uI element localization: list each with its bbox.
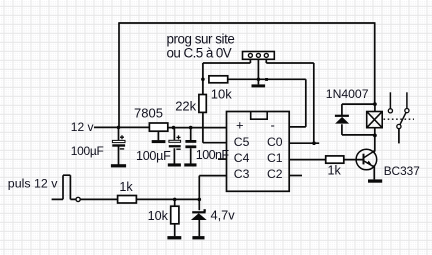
svg-text:C2: C2 [267,167,283,181]
wire header middle pin to ground [257,59,259,84]
wire 12v input [94,126,149,128]
resistor 10k horizontal [209,76,228,83]
junction pulse node zener C3 [198,198,202,202]
svg-text:1k: 1k [328,164,342,178]
svg-text:C0: C0 [267,135,283,149]
capacitor 100nF [185,140,196,148]
svg-text:10k: 10k [148,209,169,223]
svg-text:22k: 22k [175,99,196,114]
svg-text:100nF: 100nF [196,148,230,162]
wire emitter to ground [373,167,375,180]
ground emitter [368,179,382,182]
ground header [252,84,266,87]
ground cap1 [111,164,126,167]
zener diode 4,7v [191,209,207,220]
svg-text:7805: 7805 [134,106,163,121]
svg-text:BC337: BC337 [384,164,420,178]
wire C0 pin [289,142,319,144]
junction 5V 100nF [189,126,193,130]
wire 7805 gnd stub [157,131,159,140]
pulse symbol input [52,175,76,199]
junction square ground rail [265,78,268,81]
svg-text:1N4007: 1N4007 [326,87,369,101]
wire 10k vertical stubs [174,199,176,236]
svg-text:puls 12 v: puls 12 v [8,176,58,190]
junction pulse node 10k pulldown [173,198,177,202]
wire C3 pin to zener node [199,176,226,211]
svg-text:100µF: 100µF [136,149,171,163]
svg-text:10k: 10k [211,87,232,102]
svg-text:-: - [271,118,275,133]
resistor 1k base [326,156,344,163]
resistor 22k [199,95,206,113]
ground bar under 7805 [152,140,166,143]
svg-text:1k: 1k [119,180,133,194]
diode 1N4007 [335,115,349,124]
junction 5V cap2 [172,126,176,130]
resistor 1k pulse input [118,196,137,204]
svg-text:12 v: 12 v [71,120,94,134]
relay coil box [367,112,383,128]
wire zener bottom stub [198,220,200,236]
ground zener [192,236,204,239]
wire top loop [119,22,375,127]
switch SPDT contacts [388,92,409,128]
wire relay to collector [374,104,376,151]
wire pulse to 1k to node [81,198,200,200]
junction ground rail header pin 2 [257,78,261,82]
IC microcontroller box [227,112,290,192]
ground cap2 [168,163,181,166]
wire cap2 stubs [173,128,175,164]
junction prog node 10k 22k [201,78,205,82]
wire header right pin to C0 [266,59,314,143]
svg-text:100µF: 100µF [71,144,104,158]
wire switch common down [398,129,400,144]
junction relay diode collector [373,134,377,138]
svg-text:C4: C4 [234,151,250,165]
ground 10k pulldown [167,236,181,239]
capacitor C 100uF #1 polarized [112,135,125,149]
svg-text:C5: C5 [234,135,250,149]
wire C1 to 1k to base [289,159,363,161]
capacitor C 100uF #2 polarized [169,135,181,149]
wire cap3 stubs [190,128,192,164]
ground cap3 [184,163,196,166]
wire flyback diode branch [342,104,375,135]
junction C0 header pin 3 [312,141,316,145]
resistor 10k pulldown [171,206,179,224]
connector header 3 pins [243,52,275,60]
IC notch [251,112,268,120]
junction 12v input cap1 [117,126,121,130]
svg-text:C3: C3 [234,167,250,181]
svg-text:ou C.5 à 0V: ou C.5 à 0V [167,46,232,61]
regulator 7805 box [149,123,167,131]
wire ground rail 10k to minus pin [228,79,306,127]
svg-text:+: + [236,118,244,133]
svg-text:C1: C1 [267,151,283,165]
transistor Q1 BC337 [356,149,377,170]
svg-text:4,7v: 4,7v [211,208,236,223]
wire 22k to C5 pin [203,112,227,142]
svg-text:prog sur site: prog sur site [167,31,235,46]
relay linkage dotted [384,118,415,120]
wire 5V rail 7805 to IC + pin [168,127,227,129]
wire header left pin to node [203,59,251,94]
wire cap1 stubs [118,127,120,164]
junction 12v relay diode [373,102,377,106]
wire C2 stub [289,175,302,177]
wire C4 stub [218,158,227,160]
